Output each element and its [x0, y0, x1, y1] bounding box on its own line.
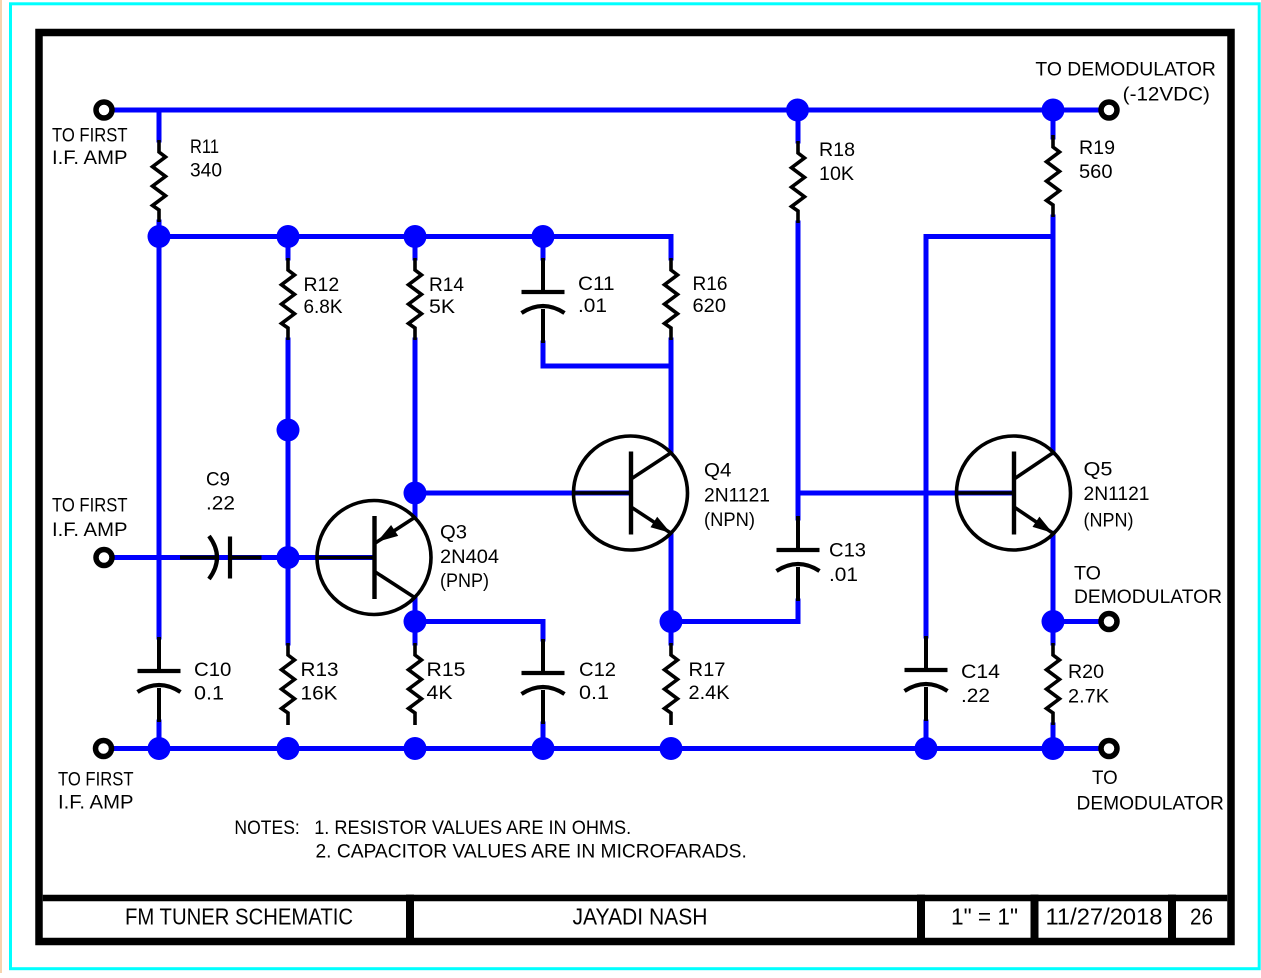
svg-text:560: 560: [1079, 162, 1113, 183]
svg-text:1. RESISTOR VALUES ARE IN OHMS: 1. RESISTOR VALUES ARE IN OHMS.: [314, 818, 631, 839]
svg-text:R12: R12: [304, 275, 340, 296]
node input / R12-R13: [277, 546, 300, 569]
label R19 560: [1079, 138, 1115, 183]
wire C14 bottom to rail: [924, 722, 929, 749]
wire C12 bottom to rail: [541, 724, 546, 749]
label Q3 2N404 PNP: [440, 523, 499, 593]
wire Q4 emitter to R17: [669, 533, 674, 643]
svg-text:5K: 5K: [429, 297, 455, 318]
label R16 620: [693, 274, 728, 317]
label input terminal: [52, 496, 128, 541]
wire bottom ground rail: [114, 746, 1098, 751]
wire R19 top drop: [1051, 110, 1056, 137]
title block: scale: [951, 903, 1018, 929]
label C11 .01: [578, 274, 615, 317]
title block divider 1: [406, 895, 414, 942]
svg-text:2N1121: 2N1121: [704, 486, 770, 507]
wire R16 bottom to Q4 collector: [669, 340, 674, 453]
svg-text:C12: C12: [579, 660, 616, 681]
label R11 340: [190, 137, 222, 182]
svg-text:0.1: 0.1: [194, 683, 224, 704]
wire Q3 collector to R15: [413, 598, 418, 643]
svg-text:C13: C13: [829, 540, 866, 561]
node ground C14: [915, 737, 938, 760]
title block divider 4: [1168, 895, 1176, 942]
resistor R16: [665, 258, 678, 340]
svg-text:R20: R20: [1068, 662, 1104, 683]
transistor Q5 (NPN): [957, 436, 1071, 550]
node R19 top junction: [1042, 99, 1065, 122]
label R20 2.7K: [1068, 662, 1109, 708]
svg-text:C14: C14: [961, 662, 1000, 683]
label top-left terminal: [52, 126, 128, 170]
label R18 10K: [819, 140, 855, 185]
svg-text:C11: C11: [578, 274, 615, 295]
svg-text:TO: TO: [1092, 768, 1118, 789]
node rail2 R14: [404, 225, 427, 248]
svg-text:620: 620: [693, 296, 727, 317]
capacitor C14: [905, 636, 948, 721]
svg-text:11/27/2018: 11/27/2018: [1046, 903, 1163, 929]
svg-text:R19: R19: [1079, 138, 1115, 159]
wire Q5 emitter to R20: [1051, 533, 1056, 643]
wire input to Q3 base: [114, 555, 373, 560]
label C10 0.1: [194, 660, 231, 705]
svg-text:R13: R13: [301, 660, 339, 681]
svg-text:R18: R18: [819, 140, 855, 161]
wire R18 node to Q5 base: [798, 491, 1013, 496]
wire R12 bottom through nodes to R13: [286, 340, 291, 643]
node Q5 emitter / R20 / output: [1042, 610, 1065, 633]
resistor R12: [282, 258, 295, 340]
svg-text:C10: C10: [194, 660, 231, 681]
label C12 0.1: [579, 660, 616, 704]
svg-text:(NPN): (NPN): [1084, 511, 1134, 532]
label R17 2.4K: [689, 660, 730, 704]
terminal to demodulator (output): [1101, 614, 1117, 630]
svg-text:26: 26: [1190, 903, 1213, 929]
wire R11 bottom to rail2: [157, 222, 162, 237]
label R15 4K: [427, 660, 466, 704]
title block divider 3: [1031, 895, 1039, 942]
svg-text:.22: .22: [206, 494, 235, 515]
label R13 16K: [301, 660, 339, 705]
svg-text:Q3: Q3: [440, 523, 467, 544]
svg-text:R17: R17: [689, 660, 726, 681]
svg-text:10K: 10K: [819, 164, 854, 185]
label C13 .01: [829, 540, 866, 586]
resistor R11: [153, 140, 166, 222]
terminal to demodulator (ground): [1101, 741, 1117, 757]
node Q4 base / Q3 emitter: [404, 482, 427, 505]
wire R20 bottom to rail: [1051, 725, 1056, 749]
terminal to demodulator -12VDC: [1101, 102, 1117, 118]
label C14 .22: [961, 662, 1000, 707]
node R18 top junction: [786, 99, 809, 122]
svg-text:TO FIRST: TO FIRST: [52, 496, 128, 517]
wire emitter node to demodulator terminal: [1053, 619, 1098, 624]
wire C10 bottom to ground rail: [157, 722, 162, 749]
label R14 5K: [429, 275, 464, 318]
wire down to Q5 collector: [1051, 237, 1056, 453]
capacitor C13: [777, 516, 820, 601]
svg-text:C9: C9: [206, 469, 230, 490]
svg-text:2. CAPACITOR VALUES ARE IN MIC: 2. CAPACITOR VALUES ARE IN MICROFARADS.: [316, 842, 747, 863]
resistor R20: [1047, 643, 1060, 725]
resistor R17: [665, 643, 678, 725]
label notes heading: [234, 818, 299, 839]
svg-text:Q4: Q4: [704, 461, 732, 482]
svg-text:4K: 4K: [427, 683, 453, 704]
wire loop to C14 top: [926, 237, 1053, 637]
wire R12 drop: [286, 237, 291, 259]
svg-text:TO: TO: [1074, 564, 1101, 585]
title block: drawing title: [125, 903, 353, 929]
wire top supply rail: [114, 108, 1098, 113]
node ground R20: [1042, 737, 1065, 760]
wire C11 drop: [541, 237, 546, 259]
label note 1: [314, 818, 631, 839]
capacitor C11: [522, 258, 565, 343]
wire R14 drop: [413, 237, 418, 259]
node Q3 collector / R15 / C12: [404, 610, 427, 633]
node ground R13: [277, 737, 300, 760]
resistor R18: [792, 141, 805, 223]
svg-text:DEMODULATOR: DEMODULATOR: [1074, 587, 1222, 608]
svg-text:FM TUNER SCHEMATIC: FM TUNER SCHEMATIC: [125, 903, 353, 929]
terminal to first I.F. amp (ground): [96, 741, 112, 757]
node rail2 R11: [148, 225, 171, 248]
svg-text:(NPN): (NPN): [704, 510, 755, 531]
label top-right terminal: [1035, 60, 1216, 106]
node ground R15: [404, 737, 427, 760]
svg-text:0.1: 0.1: [579, 683, 609, 704]
label note 2: [316, 842, 747, 863]
terminal to first I.F. amp (input): [96, 550, 112, 566]
svg-text:I.F. AMP: I.F. AMP: [52, 520, 128, 541]
node rail2 C11: [532, 225, 555, 248]
svg-text:TO FIRST: TO FIRST: [52, 126, 128, 147]
svg-text:R15: R15: [427, 660, 466, 681]
svg-text:.01: .01: [829, 565, 858, 586]
title block: author name: [573, 903, 708, 929]
capacitor C12: [522, 639, 565, 724]
svg-text:R16: R16: [693, 274, 728, 295]
transistor Q3 (PNP): [317, 501, 431, 615]
node on R12 branch: [277, 419, 300, 442]
svg-text:(PNP): (PNP): [440, 571, 489, 592]
wire second rail: [159, 237, 671, 259]
node ground C12: [532, 737, 555, 760]
wire rail2 down to C10: [157, 237, 162, 638]
resistor R14: [409, 258, 422, 340]
label bottom-right terminal: [1077, 768, 1224, 815]
resistor R13: [282, 643, 295, 725]
label C9 .22: [206, 469, 235, 514]
svg-text:JAYADI NASH: JAYADI NASH: [573, 903, 708, 929]
node Q4 emitter / R17 / C13: [660, 610, 683, 633]
label mid-right terminal: [1074, 564, 1222, 608]
svg-text:DEMODULATOR: DEMODULATOR: [1077, 794, 1224, 815]
svg-text:Q5: Q5: [1084, 460, 1113, 481]
label R12 6.8K: [304, 275, 343, 318]
svg-text:I.F. AMP: I.F. AMP: [58, 793, 134, 814]
node rail2 R12: [277, 225, 300, 248]
capacitor C9: [180, 536, 262, 579]
wire R18 top drop: [796, 110, 801, 141]
svg-text:2N1121: 2N1121: [1084, 484, 1150, 505]
node ground C10: [148, 737, 171, 760]
svg-text:TO DEMODULATOR: TO DEMODULATOR: [1035, 60, 1216, 81]
svg-text:340: 340: [190, 161, 222, 182]
wire C11 bottom to R16 line: [543, 343, 671, 366]
title block divider 2: [917, 895, 925, 942]
wire R19 bottom: [1051, 217, 1056, 237]
svg-text:I.F. AMP: I.F. AMP: [52, 148, 128, 169]
capacitor C10: [138, 637, 181, 722]
page edge stripe: [0, 0, 2, 973]
svg-text:1" = 1": 1" = 1": [951, 903, 1018, 929]
wire R18 bottom to C13 top: [796, 223, 801, 518]
svg-text:.22: .22: [961, 686, 990, 707]
svg-text:2.4K: 2.4K: [689, 683, 730, 704]
title block: page number: [1190, 903, 1213, 929]
svg-text:2N404: 2N404: [440, 547, 499, 568]
resistor R15: [409, 643, 422, 725]
label bottom-left terminal: [58, 770, 134, 814]
svg-text:.01: .01: [578, 296, 607, 317]
title block top border: [43, 895, 1228, 902]
svg-text:6.8K: 6.8K: [304, 297, 343, 318]
wire node to Q4 base: [415, 491, 630, 496]
svg-text:16K: 16K: [301, 683, 338, 704]
terminal to first I.F. amp (top left): [96, 102, 112, 118]
svg-text:2.7K: 2.7K: [1068, 686, 1109, 707]
resistor R19: [1047, 135, 1060, 217]
svg-text:NOTES:: NOTES:: [234, 818, 299, 839]
svg-text:TO FIRST: TO FIRST: [58, 770, 134, 791]
node ground R17: [660, 737, 683, 760]
wire R11 top drop: [157, 110, 162, 140]
svg-text:R14: R14: [429, 275, 464, 296]
transistor Q4 (NPN): [574, 436, 688, 550]
wire emitter node to C13 bottom: [671, 601, 798, 622]
label Q4 2N1121 NPN: [704, 461, 770, 531]
title block: date: [1046, 903, 1163, 929]
svg-text:(-12VDC): (-12VDC): [1123, 85, 1210, 106]
wire R14 bottom to Q3 emitter: [413, 340, 418, 517]
wire node to C12 top: [415, 622, 543, 640]
label Q5 2N1121 NPN: [1084, 460, 1150, 532]
svg-text:R11: R11: [190, 137, 219, 158]
